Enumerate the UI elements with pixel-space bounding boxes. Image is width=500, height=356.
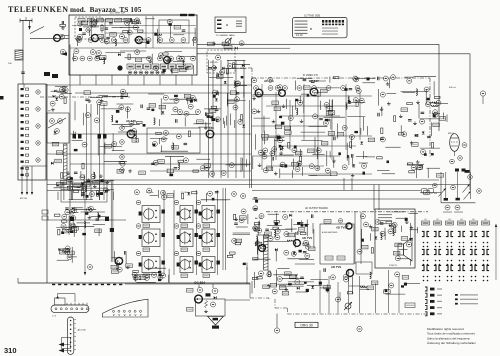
wire [81,211,106,213]
node J55 [435,280,437,282]
resistor R85 [314,93,321,97]
resistor R55 [178,160,184,162]
node N188 [120,126,125,131]
resistor R37 [101,102,108,106]
wire [209,108,221,110]
capacitor C73 [387,161,390,164]
resistor R178 [285,272,292,276]
resistor R107 [60,181,66,185]
node N155 [235,97,240,102]
node N26 [156,71,159,74]
node N96 [283,86,288,91]
node N208 [241,194,246,199]
connector 7a [424,190,438,195]
resistor R146 [227,255,233,257]
wire [97,138,99,155]
switch contact S36 [425,306,442,310]
diode D18 [347,155,350,158]
node N92 [183,158,188,163]
node N112 [278,138,283,143]
wire [275,307,288,309]
resistor R76 [337,132,344,136]
node N54 [36,90,40,94]
capacitor C10 [182,30,186,31]
node N60 [50,101,55,106]
info box [293,17,347,37]
node N129 [324,102,329,107]
wire [310,174,331,176]
node N232 [283,215,288,220]
node J32 [439,264,441,266]
resistor R20 [163,53,169,55]
wire [178,56,196,58]
wire [331,100,333,160]
node N102 [270,151,275,156]
VHF tuner module [69,15,197,75]
wire [110,180,112,262]
node N257 [211,302,216,307]
capacitor C98 [85,212,88,215]
wire [143,75,145,85]
node N170 [90,192,95,197]
node N29 [86,28,90,32]
wire [282,277,304,279]
capacitor C126 [199,212,202,216]
diode D27 [105,190,108,193]
switch contact S7 [21,128,29,130]
node N207 [147,188,152,193]
capacitor C50 [344,88,347,91]
resistor R40 [184,94,191,98]
wire [251,68,253,78]
wire [240,157,242,172]
capacitor C117 [162,261,165,265]
node N84 [120,161,125,166]
node N15 [95,56,100,61]
capacitor C147 [409,239,413,240]
node N233 [275,229,280,234]
node N98 [312,86,317,91]
wire [271,151,273,170]
node J56 [439,280,441,282]
node N251 [395,272,400,277]
resistor R161 [273,227,279,229]
node N184 [117,267,122,272]
resistor R72 [285,131,292,135]
wire [266,165,324,167]
resistor R140 [167,194,174,198]
wire [456,172,458,199]
indicator driver box [195,299,225,316]
resistor R15 [123,31,129,33]
wire [208,60,210,178]
capacitor C149 [254,209,258,210]
wire [398,258,410,260]
wire [382,173,395,175]
wire [427,167,441,169]
label text [322,28,338,35]
transistor Q12 [294,240,301,247]
wire [313,229,315,248]
node N258 [388,229,393,234]
node N18 [169,56,174,61]
inductor L10 [93,172,94,179]
wire [246,267,248,284]
inductor L3 [99,58,106,59]
resistor R120 [72,227,79,231]
node N176 [62,214,67,219]
resistor R135 [203,224,210,227]
node N66 [161,137,166,142]
node J57 [447,276,449,278]
wire [362,151,364,159]
capacitor C135 [158,279,161,282]
pot P2 [463,185,470,193]
wire [117,103,134,105]
wire [61,35,69,37]
wire [236,226,248,228]
node N267 [455,205,460,210]
node J46 [487,260,489,262]
wire [145,16,147,48]
wire [204,108,215,110]
wire [160,98,162,115]
capacitor C12 [168,60,172,61]
node J34 [451,260,453,262]
svg-text:Salvo la alteración del esquem: Salvo la alteración del esquema [427,336,470,340]
wire [365,156,375,158]
wire [407,164,424,166]
resistor R185 [347,292,353,294]
svg-text:SERVICE: SERVICE [210,62,219,64]
node J3 [423,246,425,248]
transistor Q2 [135,36,142,43]
node N140 [407,78,412,83]
ground [274,172,278,175]
resistor R66 [321,141,328,145]
switch contact S13 [21,167,29,169]
node N57 [36,141,40,145]
capacitor C70 [378,113,379,117]
resistor R26 [208,42,215,46]
diode D33 [289,214,292,217]
node N224 [305,244,310,249]
diode D31 [275,248,278,251]
ground [272,120,276,123]
wire [94,180,114,182]
capacitor C64 [281,122,285,125]
wire [175,75,177,85]
wire [252,198,430,200]
ground [267,284,271,287]
node N167 [68,177,73,182]
diode D14 [281,146,284,149]
resistor R127 [126,264,133,268]
node J27 [423,264,425,266]
node J69 [483,276,485,278]
inductor L11 [178,163,179,170]
potentiometer P1 [224,38,232,46]
wire [266,211,428,213]
resistor R9 [90,22,97,26]
wire [363,82,376,84]
wire [198,285,200,288]
node N23 [139,71,142,74]
capacitor C28 [190,100,193,103]
node N238 [407,242,412,247]
diode D28 [72,207,75,210]
wire [47,190,110,192]
wire [73,131,75,138]
ground [216,90,220,93]
resistor R134 [181,274,188,277]
wire [299,149,301,157]
wire [243,60,245,178]
wire [74,101,76,120]
diode D15 [360,142,363,145]
node J19 [471,246,473,248]
wire [257,221,259,235]
resistor R14 [101,25,103,31]
wire [125,57,151,59]
resistor R106 [96,191,98,197]
capacitor C161 [401,285,404,287]
capacitor C94 [70,182,74,183]
capacitor C45 [319,118,323,119]
node N235 [375,220,380,225]
resistor R67 [262,138,268,140]
resistor R60 [326,107,333,111]
node N244 [272,289,277,294]
AGC keyer block [47,113,69,143]
resistor R142 [234,214,236,220]
node N126 [356,89,361,94]
capacitor C142 [299,250,302,253]
resistor R16 [174,25,181,29]
capacitor C111 [70,217,74,222]
sync separator block [61,183,107,202]
node N146 [420,119,425,124]
node N2 [88,38,93,43]
node N79 [173,107,178,112]
node J9 [447,242,449,244]
resistor R50 [130,131,137,135]
switch contact S35 [425,299,442,303]
diode D22 [415,134,418,137]
node N99 [326,86,331,91]
diode D8 [216,93,219,96]
node J59 [447,280,449,282]
ground [87,178,91,181]
wire [326,284,328,293]
wire [359,162,368,164]
ground [405,220,409,223]
wire [23,84,25,88]
node N221 [291,251,296,256]
wire [328,99,330,111]
diode D6 [55,98,58,101]
node N4 [111,38,116,43]
node N58 [36,158,40,162]
wire [105,32,196,34]
wire [68,256,77,258]
wire [275,92,277,160]
capacitor C38 [169,174,173,177]
wire [432,113,440,115]
wire [232,67,252,69]
wire [80,171,82,178]
node J49 [423,276,425,278]
node N159 [480,91,485,96]
node N158 [450,159,455,164]
wire [57,91,67,93]
inductor L9 [135,135,136,142]
node J66 [475,276,477,278]
node N237 [357,249,362,254]
wire [250,297,269,299]
wire [79,75,81,85]
node N178 [65,210,70,215]
node N70 [97,100,102,105]
capacitor C91 [77,186,81,187]
resistor R24 [224,46,232,49]
node N228 [304,240,309,245]
wire [279,169,281,179]
wire [255,134,257,150]
node N183 [67,255,72,260]
wire [351,137,353,150]
node N130 [263,148,268,153]
capacitor C115 [162,233,165,237]
node N182 [65,250,70,255]
inductor L14 [296,108,297,115]
resistor R130 [143,248,150,251]
node N44 [90,50,95,55]
transistor Q1 [91,34,98,41]
node N243 [267,272,272,277]
wire [201,199,228,201]
capacitor C9 [154,33,157,36]
selector arrow [495,224,497,281]
capacitor C129 [217,261,220,265]
capacitor C150 [255,200,258,203]
resistor R4 [106,19,113,22]
node N204 [161,190,166,195]
node N67 [129,121,134,126]
node N47 [154,66,159,71]
node N115 [359,98,364,103]
resistor R96 [412,143,419,147]
node N209 [239,218,244,223]
wire [194,28,196,41]
wire [295,263,315,265]
node J54 [439,276,441,278]
wire [252,155,340,157]
node N81 [184,111,189,116]
node N262 [433,183,438,188]
resistor R173 [270,283,277,287]
wire [192,65,194,74]
resistor R183 [384,290,391,294]
wire [150,195,158,197]
inductor L7 [111,115,112,122]
diode D24 [224,81,227,84]
wire [127,75,129,85]
node N220 [305,253,310,258]
resistor R141 [230,252,236,254]
wire [227,59,245,61]
resistor R30 [172,145,179,149]
resistor R78 [262,134,269,138]
wire [158,190,160,198]
node J50 [427,276,429,278]
node N75 [94,118,99,123]
wire [388,79,390,89]
capacitor C56 [280,165,284,166]
resistor R35 [211,106,217,108]
wire [217,190,219,275]
svg-text:S3: S3 [448,219,450,221]
wire [256,236,258,255]
capacitor C33 [151,109,154,111]
wire [69,45,71,231]
capacitor C128 [199,235,202,239]
node N147 [421,149,426,154]
wire [387,93,397,95]
node N195 [136,251,141,256]
node N78 [119,105,124,110]
wire [349,285,365,287]
node N40 [127,30,132,35]
resistor R165 [401,237,408,241]
switch contact S3 [21,101,29,103]
node J62 [463,276,465,278]
diode D12 [54,132,57,135]
IF amplifier block [147,128,200,153]
node N1 [77,38,82,43]
node N203 [162,195,167,200]
wire [226,93,228,106]
capacitor C47 [307,94,310,96]
capacitor C97 [70,177,73,179]
capacitor C140 [275,222,279,225]
resistor R36 [159,105,166,109]
channel table [215,17,246,32]
wire [307,284,323,286]
wire [163,190,165,275]
wire [286,99,288,109]
wire [378,185,380,211]
ground [279,151,283,154]
resistor R79 [275,125,282,129]
wire [209,77,233,79]
inductor L24 [256,237,257,244]
wire [90,18,92,37]
capacitor C106 [125,251,126,255]
wire [196,190,198,275]
svg-text:mod. Bayazzo TS 105: mod. Bayazzo TS 105 [70,6,142,14]
wire [319,270,321,313]
node N187 [55,129,60,134]
label text [378,214,392,224]
wire [70,163,251,165]
wire [314,137,316,155]
wire [171,114,198,116]
node N118 [313,114,318,119]
wire [420,147,440,149]
diode D4 [53,95,56,98]
node N90 [221,171,226,176]
